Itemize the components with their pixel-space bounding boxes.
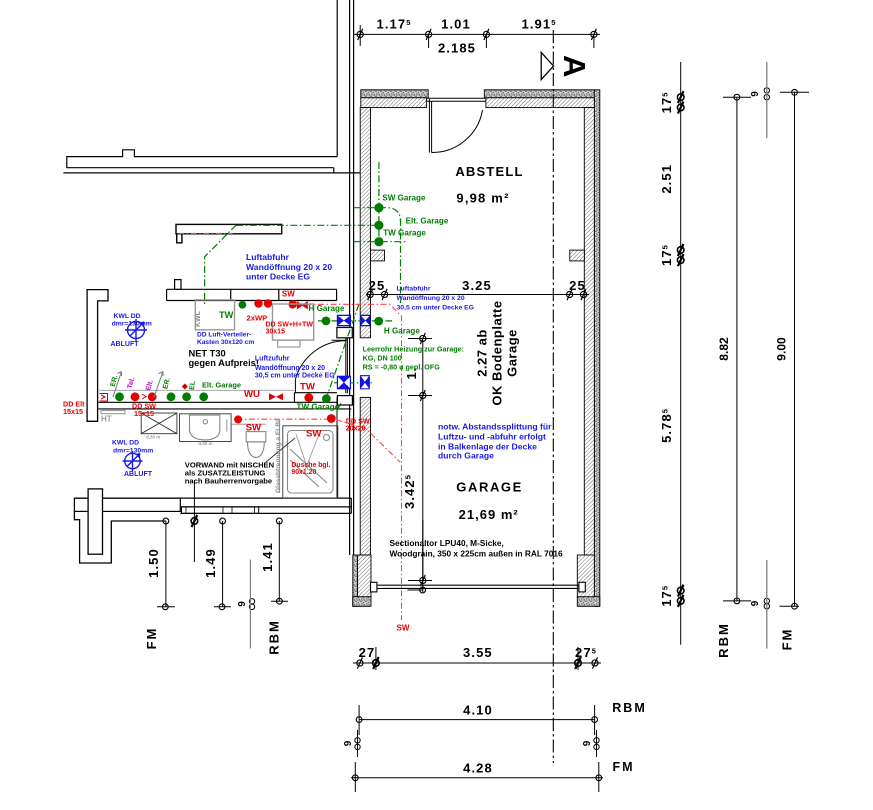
svg-text:Glasabtrennung a ELBI: Glasabtrennung a ELBI	[275, 420, 282, 493]
svg-text:21,69 m²: 21,69 m²	[459, 507, 519, 522]
svg-text:Kasten 30x120 cm: Kasten 30x120 cm	[197, 339, 254, 346]
svg-text:15x15: 15x15	[134, 409, 154, 418]
chain 4.10 RBM	[359, 705, 594, 735]
svg-text:HT: HT	[101, 415, 112, 424]
svg-text:DD SW+H+TW: DD SW+H+TW	[266, 321, 314, 328]
svg-text:1.01: 1.01	[441, 17, 471, 32]
abstell door lintel	[427, 98, 486, 101]
chain 4.28 FM	[351, 762, 603, 792]
right 9 dims	[764, 88, 769, 609]
wire red SW to garage	[293, 304, 402, 620]
svg-text:25: 25	[369, 278, 386, 293]
abstell door leaf	[429, 99, 482, 153]
small connection arrows above dots	[113, 372, 163, 398]
svg-text:27: 27	[359, 645, 376, 660]
section line A-A	[552, 30, 554, 763]
green distribution dots	[115, 203, 383, 403]
svg-text:WU: WU	[244, 389, 260, 400]
dim chain 25-3.25-25	[366, 294, 589, 296]
blue label KWL lower	[112, 440, 153, 479]
svg-text:SW: SW	[397, 624, 410, 633]
svg-text:9,98 m²: 9,98 m²	[456, 191, 509, 206]
label 2.27 ab OK Bodenplatte Garage	[475, 300, 520, 405]
bottom chain 27-3.55-27	[353, 647, 601, 670]
svg-text:Elt. Garage: Elt. Garage	[202, 381, 241, 390]
existing house upper south wall	[63, 150, 360, 173]
svg-text:9: 9	[582, 740, 593, 746]
red duct box DD SW+H+TW	[297, 302, 307, 309]
svg-text:GARAGE: GARAGE	[456, 480, 523, 495]
svg-text:KWL DD: KWL DD	[112, 440, 139, 447]
shower east partition	[336, 397, 338, 498]
svg-text:FM: FM	[780, 628, 795, 651]
svg-text:30,5 cm unter Decke EG: 30,5 cm unter Decke EG	[397, 305, 474, 312]
svg-text:A: A	[557, 55, 592, 77]
svg-text:Luftabfuhr: Luftabfuhr	[246, 252, 290, 262]
svg-text:KG, DN 100: KG, DN 100	[363, 354, 402, 363]
existing house inner wall line	[336, 0, 338, 157]
left vertical dims 1.50 1.49 1.41	[157, 482, 288, 607]
svg-text:9: 9	[343, 740, 354, 746]
svg-text:FM: FM	[612, 760, 634, 774]
svg-text:SW: SW	[282, 289, 295, 298]
electrical outlet symbols left wall	[100, 394, 147, 402]
svg-text:notw. Abstandssplittung für: notw. Abstandssplittung für	[438, 422, 552, 432]
existing house east wall (double line)	[350, 0, 354, 555]
svg-text:RBM: RBM	[716, 622, 731, 658]
svg-text:Leerrohr Heizung zur Garage:: Leerrohr Heizung zur Garage:	[363, 345, 464, 354]
foundation pier cross	[88, 489, 102, 554]
svg-text:gegen Aufpreis!: gegen Aufpreis!	[189, 358, 259, 368]
svg-text:H Garage: H Garage	[309, 304, 345, 313]
interior vertical dim chain 1.-3.42	[408, 339, 433, 593]
blue label notw. Abstandssplittung	[438, 422, 552, 461]
svg-text:15x15: 15x15	[63, 407, 83, 416]
shower glass partition	[279, 420, 281, 493]
right chain 9.00 FM	[780, 92, 810, 606]
sectional door jamb blocks	[371, 582, 586, 592]
wire lower valves	[334, 382, 374, 384]
svg-text:1.41: 1.41	[260, 542, 275, 572]
top dim labels	[377, 17, 557, 56]
wire diagonal to TW Garage dot	[327, 304, 359, 396]
svg-text:2.27 ab: 2.27 ab	[475, 329, 490, 377]
svg-text:2.51: 2.51	[659, 164, 674, 194]
svg-text:9: 9	[750, 600, 761, 606]
svg-text:ABLUFT: ABLUFT	[111, 341, 140, 348]
red WU bowtie	[269, 393, 283, 400]
svg-text:Garage: Garage	[505, 329, 520, 377]
wire luftabfuhr diagonal to KWL box	[205, 225, 237, 306]
svg-text:Luftzufuhr: Luftzufuhr	[255, 356, 290, 363]
svg-text:9: 9	[237, 601, 248, 607]
bath north wall	[167, 280, 337, 301]
green leader line TW Garage	[337, 403, 341, 411]
svg-text:d,30 m: d,30 m	[146, 435, 160, 440]
green label Leerrohr	[363, 345, 464, 372]
svg-text:H Garage: H Garage	[384, 327, 420, 336]
svg-text:4.28: 4.28	[463, 761, 493, 776]
svg-text:2xWP: 2xWP	[247, 313, 268, 322]
svg-text:DD Luft-Verteiler-: DD Luft-Verteiler-	[197, 332, 251, 339]
svg-text:EL: EL	[189, 380, 197, 390]
svg-text:Wandöffnung 20 x 20: Wandöffnung 20 x 20	[255, 365, 325, 372]
svg-text:3.25: 3.25	[462, 278, 492, 293]
bath fixtures: radiator HT	[101, 411, 125, 414]
WC prewall box	[273, 304, 314, 340]
svg-text:20x20: 20x20	[346, 424, 366, 433]
gray reference line bottom-left	[249, 560, 251, 649]
svg-text:Dusche bgl.: Dusche bgl.	[291, 462, 330, 469]
svg-text:1.50: 1.50	[146, 548, 161, 578]
svg-text:Luftzu- und -abfuhr erfolgt: Luftzu- und -abfuhr erfolgt	[438, 431, 546, 441]
section marker triangle	[541, 52, 553, 79]
wire red DD SW 20x20	[236, 419, 400, 462]
svg-text:ABLUFT: ABLUFT	[124, 471, 153, 478]
svg-text:1.49: 1.49	[203, 548, 218, 578]
svg-text:KWL: KWL	[195, 310, 202, 327]
corridor south wall (Vorwand)	[98, 390, 351, 409]
wire TW Garage horizontal	[354, 241, 408, 243]
KWL ABLUFT symbol upper	[125, 319, 147, 341]
wire Elt horizontal	[236, 224, 379, 226]
red distribution dots	[131, 299, 336, 423]
svg-text:9: 9	[750, 91, 761, 97]
svg-text:90x1.20: 90x1.20	[291, 469, 316, 476]
svg-text:4.10: 4.10	[463, 703, 493, 718]
leader line VORWAND to wall	[266, 438, 295, 462]
svg-text:nach Bauherrenvorgabe: nach Bauherrenvorgabe	[185, 476, 272, 485]
svg-text:dmr=130mm: dmr=130mm	[113, 447, 153, 454]
svg-text:8.82: 8.82	[717, 337, 731, 361]
bath-garage door jambs	[337, 328, 353, 406]
shower	[283, 426, 338, 498]
svg-text:OK Bodenplatte: OK Bodenplatte	[490, 300, 505, 405]
KWL air distribution box	[195, 300, 234, 330]
svg-text:NET T30: NET T30	[189, 349, 226, 359]
top dimension chain 1.17-1.01-1.91	[354, 25, 600, 48]
tiny rotated port labels	[110, 374, 197, 391]
wire H Garage horizontal	[318, 320, 392, 322]
sectional garage door	[377, 585, 579, 588]
garage hatched walls	[358, 98, 595, 597]
svg-text:TW Garage: TW Garage	[383, 229, 426, 238]
right chain 8.82 RBM	[723, 97, 751, 601]
svg-text:Luftabfuhr: Luftabfuhr	[397, 286, 431, 293]
blue shut-off valves	[337, 315, 371, 390]
washing machine	[141, 413, 177, 434]
interior wall bar with leg	[176, 224, 282, 242]
garage outer stipple band top	[353, 90, 600, 607]
svg-text:KWL DD: KWL DD	[114, 313, 141, 320]
svg-text:dmr=130mm: dmr=130mm	[112, 321, 152, 328]
svg-text:SW: SW	[246, 423, 262, 434]
svg-text:durch Garage: durch Garage	[438, 451, 494, 461]
blue label Luftabfuhr garage	[397, 286, 474, 312]
svg-text:d,50 m: d,50 m	[198, 441, 212, 446]
green supply lines	[205, 162, 408, 397]
small 9 dims bottom	[355, 730, 599, 757]
svg-text:TW: TW	[300, 382, 316, 393]
leader line shower SW	[296, 434, 318, 470]
bath south wall with window	[74, 498, 351, 513]
svg-text:Elt. Garage: Elt. Garage	[406, 217, 449, 226]
foundation outline lower-left	[74, 511, 165, 563]
svg-text:TW: TW	[219, 310, 234, 320]
svg-text:Woodgrain, 350 x 225cm außen i: Woodgrain, 350 x 225cm außen in RAL 7016	[390, 548, 563, 558]
wire SW Garage stub	[354, 207, 379, 209]
wire red under wall bar	[178, 232, 232, 234]
svg-text:3.55: 3.55	[463, 645, 493, 660]
wire vertical garage green	[400, 219, 402, 303]
blue label DD Luft-Verteiler	[197, 332, 254, 347]
svg-text:2.185: 2.185	[438, 41, 476, 56]
svg-text:Wandöffnung 20 x 20: Wandöffnung 20 x 20	[397, 295, 465, 302]
bath west wall	[87, 290, 108, 422]
svg-text:FM: FM	[144, 627, 159, 650]
blue label Luftabfuhr EG	[246, 252, 332, 282]
svg-text:Sectionaltor LPU40, M-Sicke,: Sectionaltor LPU40, M-Sicke,	[390, 538, 504, 548]
svg-text:unter Decke EG: unter Decke EG	[246, 272, 310, 282]
svg-text:30x15: 30x15	[266, 329, 286, 336]
KWL ABLUFT symbol lower	[123, 451, 143, 471]
small red diamond	[182, 384, 188, 390]
right chain 17-2.51-17-5.78-17	[680, 62, 682, 645]
washbasin	[180, 414, 266, 442]
svg-text:RS = -0,80 u gepl. OFG: RS = -0,80 u gepl. OFG	[363, 363, 441, 372]
svg-text:30,5 cm unter Decke EG: 30,5 cm unter Decke EG	[255, 372, 335, 379]
blue label Luftzufuhr	[255, 356, 335, 380]
bath-garage door leaf	[295, 338, 347, 393]
svg-text:25: 25	[569, 278, 586, 293]
svg-text:TW Garage: TW Garage	[297, 403, 340, 412]
wire vertical at 378.9	[378, 162, 380, 243]
svg-text:Wandöffnung 20 x 20: Wandöffnung 20 x 20	[246, 262, 332, 272]
svg-text:RBM: RBM	[267, 619, 282, 655]
blue label KWL upper	[111, 313, 152, 348]
svg-text:SW Garage: SW Garage	[382, 194, 426, 203]
svg-text:RBM: RBM	[612, 701, 646, 715]
svg-text:ABSTELL: ABSTELL	[455, 164, 523, 179]
WC	[246, 432, 266, 458]
svg-text:9.00: 9.00	[775, 337, 789, 361]
wire SW curve to vertical	[379, 208, 401, 221]
red ducting lines	[178, 233, 401, 620]
svg-text:SW: SW	[306, 429, 322, 440]
